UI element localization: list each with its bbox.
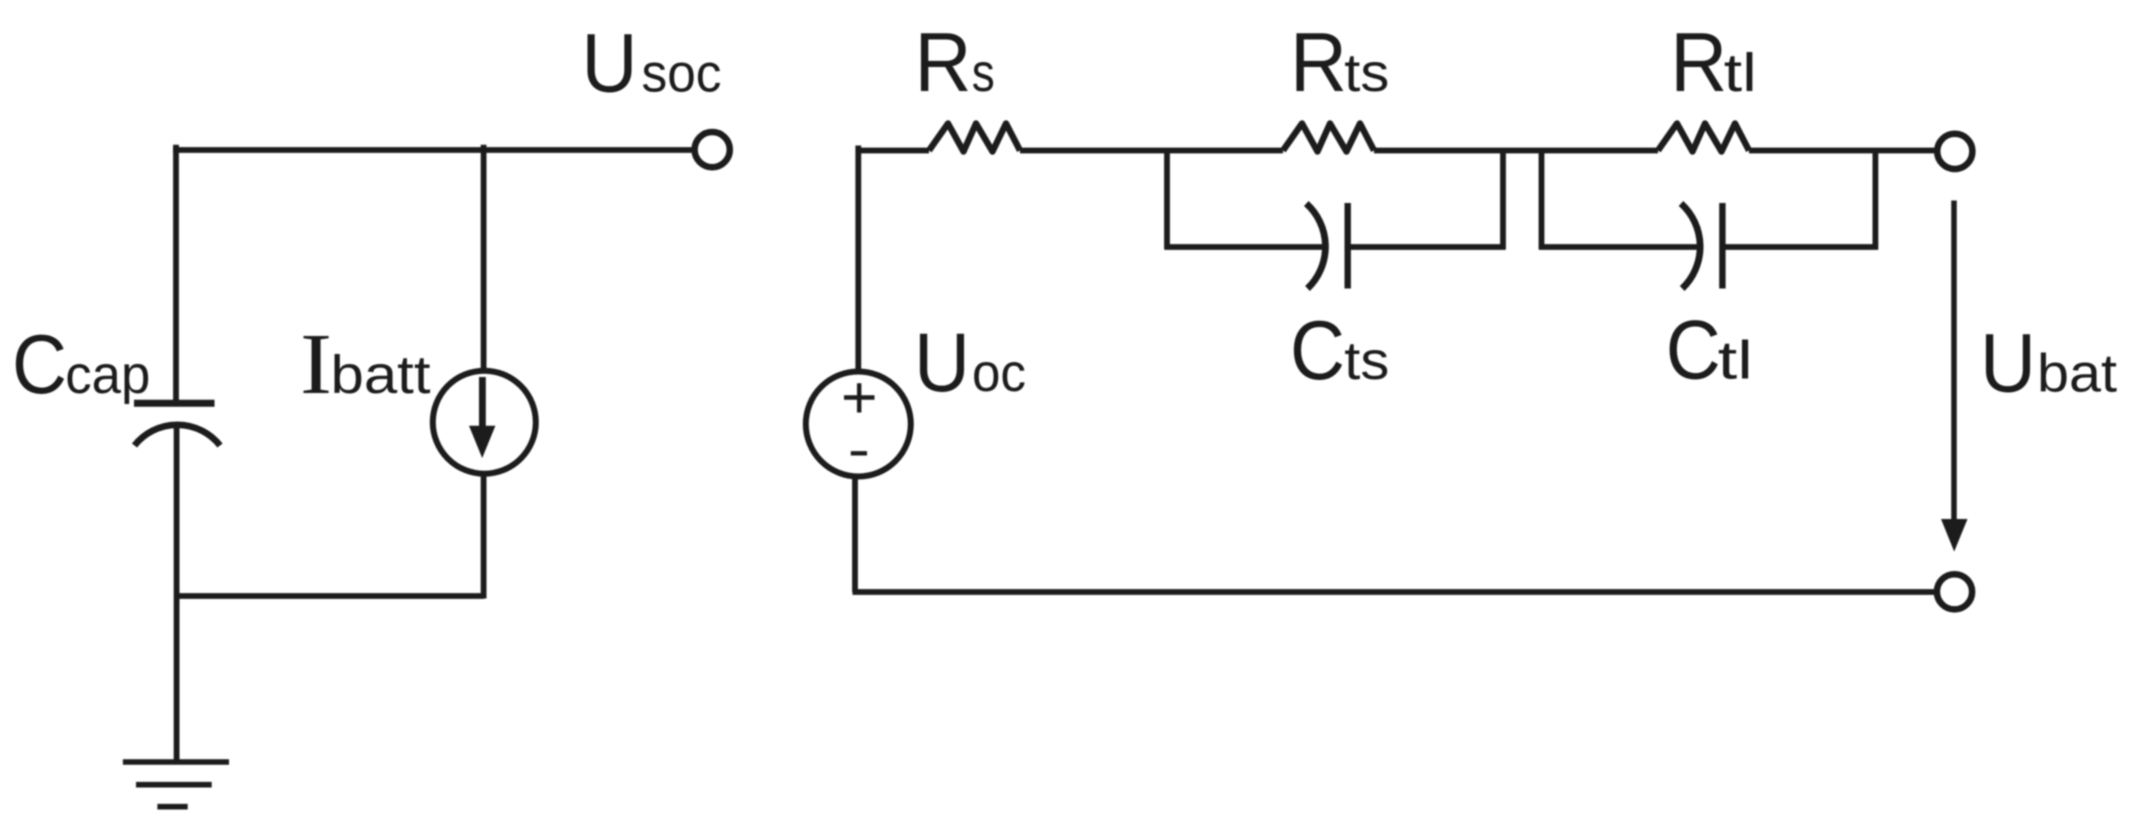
svg-text:U: U bbox=[582, 16, 638, 110]
label Rts bbox=[1290, 15, 1389, 109]
svg-text:R: R bbox=[1290, 15, 1347, 109]
voltage source Uoc bbox=[806, 372, 911, 477]
svg-text:ts: ts bbox=[1344, 331, 1389, 391]
label Rtl bbox=[1670, 15, 1757, 109]
svg-text:R: R bbox=[915, 15, 972, 109]
svg-text:oc: oc bbox=[972, 343, 1026, 403]
capacitor Ccap bbox=[134, 403, 220, 445]
svg-text:C: C bbox=[1290, 303, 1345, 397]
wire top before Rs bbox=[856, 148, 929, 154]
capacitor Ctl bbox=[1681, 203, 1722, 289]
label Ubat bbox=[1980, 316, 2117, 410]
wire after Rtl to Ubat terminal bbox=[1749, 148, 1935, 154]
wire top-left horizontal (node Usoc net) bbox=[173, 147, 692, 153]
resistor Rts bbox=[1283, 124, 1374, 152]
wire Uoc branch upper bbox=[855, 146, 861, 372]
ground bbox=[123, 762, 229, 807]
resistor Rs bbox=[929, 124, 1020, 152]
label Ccap bbox=[12, 317, 150, 411]
label Uoc bbox=[914, 315, 1026, 409]
wire box1 left vertical bbox=[1164, 148, 1170, 250]
wire box2 left vertical bbox=[1539, 148, 1545, 250]
wire between Rts and Rtl bbox=[1374, 148, 1658, 154]
resistor Rtl bbox=[1658, 124, 1749, 152]
svg-text:cap: cap bbox=[65, 345, 150, 405]
svg-text:R: R bbox=[1670, 15, 1727, 109]
svg-text:C: C bbox=[1666, 302, 1721, 396]
arrow Ubat bbox=[1941, 201, 1968, 552]
svg-text:soc: soc bbox=[642, 44, 722, 104]
label Usoc bbox=[582, 16, 722, 110]
label Cts bbox=[1290, 303, 1389, 397]
wire box2 bottom right segment bbox=[1722, 244, 1878, 250]
svg-text:tl: tl bbox=[1724, 43, 1757, 103]
wire box2 bottom left segment bbox=[1539, 244, 1699, 250]
svg-text:ts: ts bbox=[1344, 43, 1389, 103]
wire below Ccap down to ground bbox=[174, 424, 180, 760]
wire box1 right vertical bbox=[1500, 148, 1506, 250]
svg-text:I: I bbox=[300, 315, 332, 412]
wire bottom junction horizontal bbox=[177, 593, 484, 599]
svg-text:s: s bbox=[972, 43, 995, 103]
svg-text:batt: batt bbox=[331, 345, 431, 405]
node Ubat bottom terminal bbox=[1937, 574, 1972, 609]
svg-text:U: U bbox=[1980, 316, 2036, 410]
svg-text:bat: bat bbox=[2037, 344, 2117, 404]
wire box2 right vertical bbox=[1873, 148, 1879, 250]
wire bottom horizontal bbox=[853, 589, 1935, 595]
node Usoc terminal bbox=[695, 132, 730, 167]
svg-text:C: C bbox=[12, 317, 67, 411]
label Ctl bbox=[1666, 302, 1753, 396]
wire box1 bottom left segment bbox=[1165, 244, 1325, 250]
current source Ibatt bbox=[433, 371, 536, 474]
label Ibatt bbox=[300, 315, 431, 412]
label Rs bbox=[915, 15, 995, 109]
wire Ibatt branch lower bbox=[481, 476, 487, 599]
wire between Rs and Rts bbox=[1020, 148, 1283, 154]
svg-text:U: U bbox=[914, 315, 970, 409]
wire box1 bottom right segment bbox=[1348, 244, 1506, 250]
node Ubat top terminal bbox=[1937, 134, 1972, 169]
svg-text:tl: tl bbox=[1718, 330, 1753, 390]
wire left vertical to Ccap bbox=[173, 145, 179, 401]
wire Uoc branch lower bbox=[852, 477, 858, 593]
capacitor Cts bbox=[1306, 203, 1347, 289]
wire Ibatt branch upper bbox=[481, 145, 487, 369]
